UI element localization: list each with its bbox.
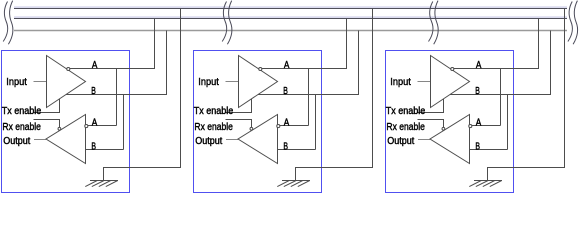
svg-text:B: B [91, 141, 96, 152]
svg-text:A: A [92, 118, 98, 129]
svg-text:Output: Output [3, 136, 30, 147]
svg-text:Rx enable: Rx enable [2, 122, 41, 133]
svg-text:A: A [92, 60, 98, 71]
svg-text:Tx enable: Tx enable [2, 106, 42, 117]
svg-text:B: B [91, 86, 96, 97]
svg-text:Input: Input [6, 77, 27, 88]
